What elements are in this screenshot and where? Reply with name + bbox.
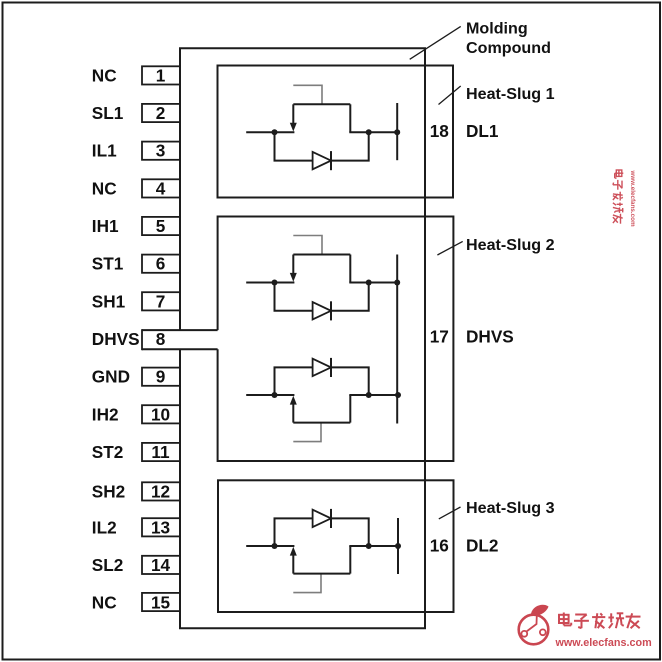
svg-text:SL2: SL2 <box>92 555 124 575</box>
svg-text:3: 3 <box>156 141 166 161</box>
node dot bus Q4 <box>395 543 401 549</box>
package outline (molding compound) with notch at pin 8 <box>180 48 425 628</box>
wire DHVS channel top <box>142 329 218 331</box>
pin 12 box <box>142 482 180 500</box>
svg-text:16: 16 <box>430 535 449 555</box>
svg-text:www.elecfans.com: www.elecfans.com <box>629 170 636 228</box>
svg-text:Heat-Slug 1: Heat-Slug 1 <box>466 85 555 103</box>
diode DQ4 <box>313 510 331 527</box>
leader line heat-slug 3 <box>439 507 461 519</box>
pin 13 box <box>142 518 180 536</box>
svg-text:NC: NC <box>92 178 117 198</box>
wire rail right Q4 <box>349 545 398 547</box>
node dot right Q3 <box>366 392 372 398</box>
svg-text:Heat-Slug 3: Heat-Slug 3 <box>466 499 555 517</box>
node dot bus Q3 <box>395 392 401 398</box>
svg-text:IL2: IL2 <box>92 517 117 537</box>
transistor Q3 drain leg <box>349 395 351 423</box>
wire bus vertical Q1 <box>396 103 398 160</box>
svg-text:DL1: DL1 <box>466 121 499 141</box>
pin 10 box <box>142 405 180 423</box>
pin 8 box left edge <box>141 329 143 350</box>
node dot left Q3 <box>272 392 278 398</box>
svg-text:IH2: IH2 <box>92 404 119 424</box>
wire diode branch Q2 <box>275 283 369 311</box>
svg-text:5: 5 <box>156 216 166 236</box>
pin 7 box <box>142 292 180 310</box>
transistor Q3 source leg arrow <box>292 404 294 423</box>
transistor Q1 drain leg <box>349 104 351 132</box>
heat-slug 1 rectangle <box>218 66 454 198</box>
node dot right Q4 <box>366 543 372 549</box>
leader line heat-slug 2 <box>437 241 462 255</box>
pin 3 box <box>142 142 180 160</box>
svg-text:Molding: Molding <box>466 20 528 38</box>
svg-text:4: 4 <box>156 178 166 198</box>
leader line molding <box>410 26 461 59</box>
node dot left Q1 <box>272 129 278 135</box>
svg-text:DHVS: DHVS <box>466 327 514 347</box>
svg-text:2: 2 <box>156 103 166 123</box>
watermark text bottom right <box>555 613 652 650</box>
svg-text:GND: GND <box>92 367 130 387</box>
svg-text:6: 6 <box>156 254 166 274</box>
svg-text:SH1: SH1 <box>92 291 126 311</box>
pin 9 box <box>142 368 180 386</box>
node dot right Q1 <box>366 129 372 135</box>
svg-text:NC: NC <box>92 593 117 613</box>
svg-text:www.elecfans.com: www.elecfans.com <box>555 637 652 649</box>
wire rail right Q1 <box>349 131 397 133</box>
wire rail right Q2 <box>349 282 397 284</box>
svg-text:7: 7 <box>156 291 166 311</box>
svg-text:IL1: IL1 <box>92 141 117 161</box>
pin 11 box <box>142 443 180 461</box>
svg-text:ST1: ST1 <box>92 254 124 274</box>
wire rail left Q4 <box>246 545 294 547</box>
heat-slug 2 rectangle (left edge interrupted by DHVS channel) <box>218 217 454 462</box>
svg-text:1: 1 <box>156 65 166 85</box>
wire DHVS channel bottom <box>142 348 218 350</box>
transistor Q2 gate lead <box>293 236 322 255</box>
diode DQ3 <box>313 359 331 376</box>
pin 15 box <box>142 593 180 611</box>
pin 1 box <box>142 66 180 84</box>
pin 2 box <box>142 104 180 122</box>
svg-text:10: 10 <box>151 404 170 424</box>
svg-text:17: 17 <box>430 327 449 347</box>
wire rail left Q3 <box>246 394 294 396</box>
wire diode branch Q4 <box>275 518 369 546</box>
wire diode branch Q3 <box>275 367 369 395</box>
svg-text:13: 13 <box>151 517 170 537</box>
transistor Q1 gate lead <box>293 85 322 104</box>
transistor Q3 gate lead <box>293 423 321 442</box>
svg-text:9: 9 <box>156 367 166 387</box>
svg-text:ST2: ST2 <box>92 442 124 462</box>
svg-text:14: 14 <box>151 555 171 575</box>
transistor Q2 source leg arrow <box>292 255 294 275</box>
pin 4 box <box>142 179 180 197</box>
svg-text:NC: NC <box>92 65 117 85</box>
leader line heat-slug 1 <box>439 86 461 105</box>
node dot bus Q2 <box>394 280 400 286</box>
watermark logo bottom right <box>519 605 549 645</box>
transistor Q4 source leg arrow <box>292 555 294 574</box>
diode DQ1 <box>313 152 331 169</box>
transistor Q2 drain leg <box>349 255 351 283</box>
transistor Q1 gate bar <box>293 103 350 105</box>
wire rail left Q2 <box>246 282 294 284</box>
pin 5 box <box>142 217 180 235</box>
pin 14 box <box>142 556 180 574</box>
heat-slug 3 rectangle <box>218 480 454 612</box>
transistor Q1 source leg arrow <box>292 104 294 124</box>
wire rail left Q1 <box>246 131 294 133</box>
svg-text:DL2: DL2 <box>466 535 498 555</box>
svg-text:DHVS: DHVS <box>92 329 140 349</box>
svg-text:18: 18 <box>430 121 450 141</box>
svg-text:15: 15 <box>151 593 171 613</box>
transistor Q4 drain leg <box>349 546 351 574</box>
svg-text:SL1: SL1 <box>92 103 124 123</box>
transistor Q3 gate bar <box>293 422 350 424</box>
transistor Q4 gate lead <box>293 574 321 593</box>
transistor Q2 gate bar <box>293 254 350 256</box>
wire rail right Q3 <box>349 394 398 396</box>
node dot left Q2 <box>272 280 278 286</box>
svg-text:IH1: IH1 <box>92 216 119 236</box>
node dot right Q2 <box>366 280 372 286</box>
svg-text:Heat-Slug 2: Heat-Slug 2 <box>466 236 555 254</box>
svg-text:8: 8 <box>156 329 166 349</box>
node dot left Q4 <box>272 543 278 549</box>
wire bus vertical Q2 <box>396 255 398 424</box>
diode DQ2 <box>313 302 331 319</box>
svg-text:Compound: Compound <box>466 39 551 57</box>
pin 6 box <box>142 255 180 273</box>
node dot bus Q1 <box>394 129 400 135</box>
transistor Q4 gate bar <box>293 573 350 575</box>
svg-text:11: 11 <box>151 442 170 462</box>
watermark vertical elecfans (right edge) <box>613 170 636 228</box>
wire diode branch Q1 <box>275 132 369 160</box>
svg-text:12: 12 <box>151 481 170 501</box>
wire bus vertical Q4 <box>397 518 399 574</box>
svg-text:SH2: SH2 <box>92 481 125 501</box>
